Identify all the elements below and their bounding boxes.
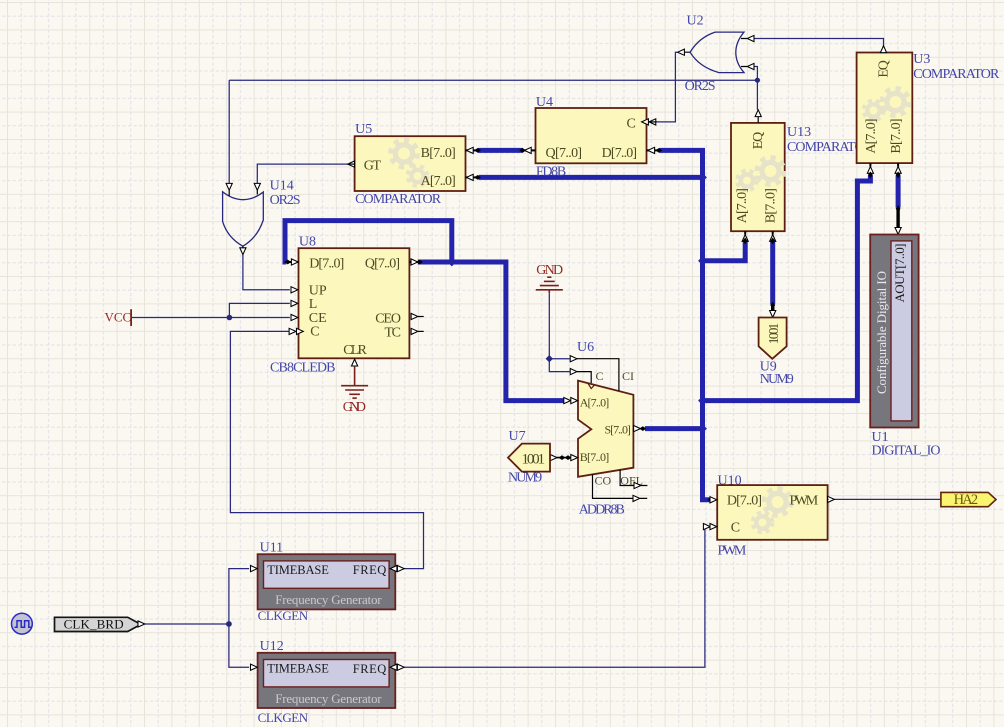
svg-text:Frequency Generator: Frequency Generator — [275, 592, 382, 607]
svg-text:A[7..0]: A[7..0] — [580, 395, 610, 409]
junction bus U3.A / vertical — [698, 396, 707, 405]
svg-text:U14: U14 — [270, 178, 294, 193]
junction bus Q/feedback — [447, 258, 456, 267]
pin CLR — [354, 358, 356, 359]
svg-text:A[7..0]: A[7..0] — [864, 119, 879, 154]
bus U8.D feedback loop — [285, 221, 452, 262]
svg-text:S[7..0]: S[7..0] — [605, 423, 631, 437]
pin EQ — [757, 117, 759, 123]
junction GND net at U6 — [546, 355, 553, 362]
svg-text:U13: U13 — [787, 125, 811, 140]
svg-text:PWM: PWM — [718, 544, 747, 559]
svg-text:COMPARATOR: COMPARATOR — [355, 192, 442, 207]
pin D[7..0] — [708, 497, 715, 502]
svg-text:GT: GT — [364, 159, 382, 174]
pin A[7..0] — [744, 231, 746, 234]
svg-text:Frequency Generator: Frequency Generator — [275, 691, 382, 706]
svg-text:D[7..0]: D[7..0] — [727, 494, 762, 509]
junction bus U6.S / vertical — [698, 424, 707, 433]
svg-text:OR2S: OR2S — [685, 79, 716, 94]
bus U13.A — [703, 241, 746, 260]
pin PWM — [828, 496, 835, 502]
wire U2 output to U4.C — [656, 52, 677, 122]
pin C (black pin line from arrow) — [577, 372, 591, 383]
svg-text:C: C — [310, 324, 319, 339]
wire U8.L — [229, 303, 289, 317]
pin GT — [348, 161, 355, 167]
pin A[7..0] — [466, 176, 477, 178]
svg-text:CLK_BRD: CLK_BRD — [64, 617, 124, 632]
svg-text:CI: CI — [622, 369, 634, 383]
wire net U13.EQ horizontal top — [229, 79, 757, 81]
pin Q[7..0] — [409, 261, 418, 263]
pin C (clock) — [703, 524, 710, 530]
pin C (clock) — [289, 328, 296, 334]
junction CLK_BRD — [226, 621, 232, 627]
pin TIMEBASE — [250, 566, 257, 572]
junction bus U5.A / vertical — [698, 173, 707, 182]
svg-text:EQ: EQ — [751, 132, 766, 150]
svg-text:U7: U7 — [509, 429, 526, 444]
wire CLK_BRD to U11/U12 TIMEBASE — [145, 623, 229, 625]
svg-text:B[7..0]: B[7..0] — [580, 450, 610, 464]
svg-text:U12: U12 — [260, 639, 284, 654]
svg-text:HA2: HA2 — [954, 492, 979, 508]
svg-text:D[7..0]: D[7..0] — [602, 146, 638, 161]
pin S[7..0] — [634, 426, 641, 432]
pin TC — [411, 328, 418, 334]
pin D[7..0] — [288, 261, 299, 263]
pin L — [291, 300, 298, 306]
svg-text:DIGITAL_IO: DIGITAL_IO — [872, 444, 941, 459]
svg-text:B[7..0]: B[7..0] — [421, 146, 456, 161]
svg-text:Configurable Digital IO: Configurable Digital IO — [874, 271, 889, 394]
bus U4.D down the main vertical — [659, 150, 709, 499]
svg-text:1001: 1001 — [766, 323, 781, 345]
pin CEO — [411, 313, 418, 319]
wire down to U14 input A — [228, 80, 230, 183]
wire U12.FREQ to U10.C — [404, 527, 705, 668]
wire U2 input B down to U13.EQ — [754, 67, 758, 110]
svg-text:GND: GND — [343, 400, 366, 415]
svg-text:CLR: CLR — [343, 343, 367, 358]
svg-text:Q[7..0]: Q[7..0] — [365, 257, 400, 272]
pin OFL — [620, 470, 647, 486]
svg-text:TC: TC — [385, 325, 402, 340]
svg-text:COMPARATOR: COMPARATOR — [913, 67, 1000, 82]
black bus segment into U1 — [896, 208, 899, 227]
wire VCC to U8.CE — [132, 317, 290, 319]
svg-text:L: L — [309, 297, 318, 312]
svg-text:Q[7..0]: Q[7..0] — [546, 146, 583, 161]
svg-text:CO: CO — [595, 474, 612, 488]
svg-text:FREQ: FREQ — [353, 563, 387, 577]
svg-text:U6: U6 — [577, 340, 594, 355]
junction U13.EQ / U2.B — [755, 78, 760, 83]
svg-text:VCC: VCC — [105, 309, 132, 324]
pin B[7..0] — [466, 149, 477, 151]
pin FREQ (IO diamond) — [397, 566, 404, 572]
pin TIMEBASE — [250, 664, 257, 670]
pin A[7..0] — [563, 398, 570, 403]
pin UP — [291, 287, 298, 293]
pin B[7..0] — [772, 231, 774, 234]
svg-text:C: C — [596, 369, 604, 383]
wire U5.GT to U14 input B — [257, 164, 347, 183]
svg-text:C: C — [627, 117, 636, 132]
svg-text:U2: U2 — [687, 14, 704, 29]
svg-text:CLKGEN: CLKGEN — [258, 710, 309, 725]
bus U13.B to U9 — [770, 241, 775, 304]
svg-text:U3: U3 — [913, 52, 930, 67]
pin C (clock, double chevron) — [642, 119, 649, 125]
pin CI — [577, 359, 619, 391]
svg-text:TIMEBASE: TIMEBASE — [267, 563, 329, 577]
pin FREQ (IO diamond) — [397, 664, 404, 670]
wire U11.FREQ to U8.C — [230, 331, 423, 568]
svg-text:AOUT[7..0]: AOUT[7..0] — [892, 244, 907, 303]
bus U5.A long — [479, 175, 703, 180]
svg-text:OR2S: OR2S — [270, 193, 301, 208]
pin B[7..0] from U7 — [550, 457, 577, 459]
bus U8.Q to U6.A — [418, 262, 566, 401]
black bus segment into U9 — [771, 304, 774, 312]
pin D[7..0] — [647, 149, 658, 151]
pin CE — [291, 314, 298, 320]
svg-text:PWM: PWM — [790, 494, 819, 509]
clock notch on top edge for C — [588, 383, 595, 389]
pin A[7..0] — [869, 163, 871, 166]
svg-text:TIMEBASE: TIMEBASE — [267, 662, 329, 676]
svg-text:FD8B: FD8B — [536, 164, 566, 179]
bus U3.A down left — [703, 175, 871, 400]
wire GND to U6 C/CI — [549, 293, 570, 359]
svg-text:EQ: EQ — [877, 60, 892, 78]
bus U3.B to U1 (upper blue part) — [896, 175, 901, 207]
svg-text:B[7..0]: B[7..0] — [763, 188, 778, 223]
svg-text:D[7..0]: D[7..0] — [309, 257, 344, 272]
svg-text:1001: 1001 — [522, 451, 546, 467]
svg-text:CLKGEN: CLKGEN — [258, 608, 309, 623]
pin EQ — [883, 46, 885, 53]
svg-text:A[7..0]: A[7..0] — [421, 174, 456, 189]
svg-text:B[7..0]: B[7..0] — [889, 119, 904, 154]
pin Q[7..0] — [524, 149, 535, 151]
svg-text:NUM9: NUM9 — [760, 372, 794, 387]
svg-text:U5: U5 — [355, 122, 372, 137]
wire U3.EQ to U2 input A — [754, 39, 884, 46]
svg-text:GND: GND — [536, 263, 563, 278]
junction L / VCC wire — [227, 315, 233, 321]
junction bus U13.A / vertical — [698, 256, 707, 265]
bus U6.S to vertical — [645, 426, 703, 431]
pin B[7..0] — [897, 163, 899, 166]
svg-text:C: C — [731, 521, 740, 536]
svg-text:FREQ: FREQ — [353, 662, 387, 676]
wire U10.PWM to HA2 — [834, 498, 941, 500]
svg-text:NUM9: NUM9 — [508, 471, 542, 486]
bus U5.B to U4.Q — [478, 148, 523, 153]
svg-text:CB8CLEDB: CB8CLEDB — [270, 360, 336, 375]
svg-text:CEO: CEO — [375, 312, 401, 327]
pin CO — [593, 474, 648, 498]
svg-text:A[7..0]: A[7..0] — [735, 188, 750, 223]
svg-text:ADDR8B: ADDR8B — [579, 503, 625, 518]
wire U14 output to U8.UP — [243, 255, 290, 290]
